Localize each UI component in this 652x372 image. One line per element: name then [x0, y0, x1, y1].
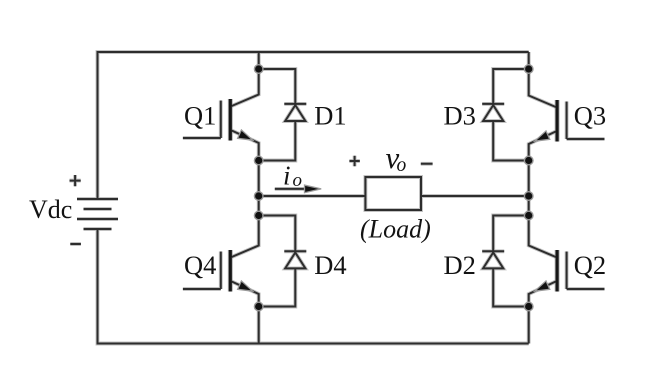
svg-text:Vdc: Vdc — [29, 195, 72, 224]
svg-text:D2: D2 — [444, 250, 476, 280]
svg-text:D4: D4 — [314, 250, 346, 280]
svg-text:Q1: Q1 — [184, 100, 216, 130]
svg-text:Q3: Q3 — [574, 100, 606, 130]
svg-text:D3: D3 — [444, 100, 476, 130]
svg-text:o: o — [293, 170, 303, 191]
svg-text:D1: D1 — [314, 100, 346, 130]
svg-text:Q2: Q2 — [574, 250, 606, 280]
svg-text:o: o — [397, 155, 407, 176]
svg-text:i: i — [283, 161, 291, 191]
svg-text:(Load): (Load) — [360, 215, 431, 244]
svg-text:Q4: Q4 — [184, 250, 216, 280]
